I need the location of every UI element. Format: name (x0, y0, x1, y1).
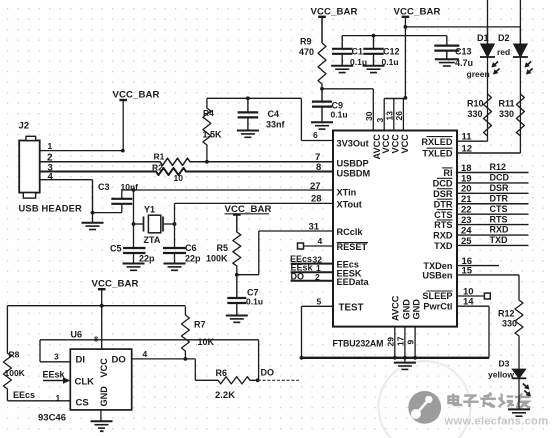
svg-text:VCC: VCC (381, 134, 391, 154)
svg-text:DTR: DTR (490, 193, 509, 203)
svg-text:13: 13 (385, 111, 395, 121)
svg-text:4: 4 (48, 172, 54, 183)
svg-text:470: 470 (299, 47, 314, 57)
svg-text:ZTA: ZTA (144, 235, 161, 245)
svg-text:8: 8 (94, 335, 98, 344)
svg-text:4: 4 (143, 349, 148, 359)
svg-text:TEST: TEST (339, 303, 364, 314)
svg-text:USBen: USBen (422, 271, 453, 281)
svg-text:PwrCtl: PwrCtl (423, 301, 452, 311)
svg-text:DTR: DTR (434, 199, 453, 209)
svg-text:4.7u: 4.7u (455, 58, 473, 68)
svg-text:USBDM: USBDM (337, 168, 371, 178)
svg-text:22: 22 (461, 205, 472, 216)
svg-text:RXD: RXD (433, 231, 453, 241)
svg-text:22p: 22p (185, 254, 201, 264)
svg-text:R6: R6 (216, 368, 228, 378)
svg-text:0.1u: 0.1u (246, 297, 263, 307)
svg-text:3V3Out: 3V3Out (337, 139, 369, 149)
svg-text:3: 3 (375, 118, 385, 123)
svg-text:1: 1 (56, 393, 61, 403)
svg-text:R7: R7 (194, 320, 206, 330)
svg-text:XTin: XTin (337, 187, 357, 197)
svg-text:green: green (467, 69, 490, 79)
svg-text:R5: R5 (217, 243, 229, 253)
svg-text:VCC_BAR: VCC_BAR (311, 7, 358, 18)
svg-text:DI: DI (76, 355, 86, 366)
svg-text:USB HEADER: USB HEADER (19, 204, 83, 214)
svg-text:12: 12 (462, 143, 473, 154)
svg-text:VCC: VCC (99, 358, 109, 378)
svg-text:CLK: CLK (75, 377, 95, 388)
svg-text:EEcs: EEcs (13, 390, 35, 400)
svg-text:14: 14 (463, 297, 474, 308)
svg-text:31: 31 (309, 222, 320, 233)
svg-text:RTS: RTS (490, 214, 508, 224)
svg-text:C5: C5 (110, 244, 122, 254)
svg-text:8: 8 (316, 162, 321, 173)
svg-text:21: 21 (461, 194, 472, 205)
svg-text:VCC_BAR: VCC_BAR (92, 279, 139, 290)
svg-text:0.1u: 0.1u (331, 110, 348, 120)
svg-text:C13: C13 (455, 47, 472, 57)
svg-text:11: 11 (462, 132, 473, 143)
svg-text:RXD: RXD (490, 225, 510, 235)
svg-text:0.1u: 0.1u (350, 57, 367, 67)
svg-text:R12: R12 (490, 162, 507, 172)
svg-text:29: 29 (385, 337, 395, 347)
svg-text:2.2K: 2.2K (215, 390, 235, 401)
svg-text:AVCC: AVCC (391, 295, 401, 321)
svg-text:330: 330 (499, 109, 514, 119)
svg-text:10K: 10K (198, 337, 215, 347)
svg-text:GND: GND (411, 299, 421, 320)
svg-text:D3: D3 (499, 359, 510, 369)
svg-text:TXD: TXD (434, 241, 453, 251)
svg-text:93C46: 93C46 (38, 413, 66, 424)
svg-text:C6: C6 (185, 243, 197, 253)
svg-text:J2: J2 (19, 121, 30, 132)
svg-text:DSR: DSR (433, 189, 453, 199)
svg-text:R1: R1 (154, 152, 165, 162)
svg-text:SLEEP: SLEEP (422, 291, 452, 301)
svg-text:VCC_BAR: VCC_BAR (394, 7, 441, 18)
svg-text:26: 26 (394, 111, 404, 121)
svg-text:28: 28 (311, 194, 322, 205)
svg-text:DCD: DCD (490, 173, 510, 183)
svg-text:D2: D2 (498, 33, 510, 43)
svg-text:C3: C3 (98, 182, 110, 192)
svg-text:C12: C12 (383, 47, 400, 57)
svg-text:27: 27 (310, 181, 321, 192)
svg-text:VCC: VCC (391, 134, 401, 154)
svg-text:15: 15 (462, 265, 473, 276)
svg-text:33nf: 33nf (266, 120, 286, 130)
svg-text:DCD: DCD (433, 179, 453, 189)
svg-text:0.1u: 0.1u (382, 57, 399, 67)
svg-text:C1: C1 (352, 47, 364, 57)
svg-text:19: 19 (461, 173, 472, 184)
svg-text:CTS: CTS (490, 204, 508, 214)
svg-text:U6: U6 (71, 330, 83, 340)
svg-text:100K: 100K (206, 254, 228, 264)
svg-text:GND: GND (99, 386, 109, 407)
svg-text:R9: R9 (300, 37, 312, 47)
svg-text:17: 17 (396, 336, 406, 346)
svg-text:RCclk: RCclk (337, 227, 364, 237)
svg-text:TXLED: TXLED (422, 148, 452, 158)
svg-text:1.5K: 1.5K (203, 130, 223, 140)
svg-text:2: 2 (315, 272, 320, 282)
svg-text:CTS: CTS (434, 210, 452, 220)
svg-text:VCC: VCC (400, 134, 410, 154)
svg-text:XTout: XTout (337, 200, 362, 210)
svg-text:3: 3 (54, 352, 59, 362)
svg-text:330: 330 (468, 109, 483, 119)
svg-text:RTS: RTS (434, 220, 452, 230)
svg-text:24: 24 (461, 225, 472, 236)
svg-text:yellow: yellow (488, 370, 514, 380)
svg-text:R8: R8 (9, 350, 20, 360)
svg-text:330: 330 (502, 319, 517, 329)
svg-text:10: 10 (174, 173, 184, 183)
svg-text:CS: CS (76, 398, 89, 409)
svg-text:EEData: EEData (337, 277, 370, 287)
svg-text:100K: 100K (5, 368, 26, 378)
svg-text:6: 6 (313, 130, 318, 140)
svg-text:R11: R11 (499, 99, 515, 109)
svg-text:D1: D1 (477, 33, 489, 43)
svg-text:EEsk: EEsk (43, 370, 66, 380)
svg-text:4: 4 (318, 236, 323, 246)
svg-text:RXLED: RXLED (421, 137, 453, 147)
svg-text:22p: 22p (139, 254, 155, 264)
svg-text:C4: C4 (268, 109, 280, 119)
svg-text:DO: DO (291, 271, 305, 281)
svg-text:FTBU232AM: FTBU232AM (333, 339, 384, 349)
svg-text:20: 20 (461, 184, 472, 195)
svg-text:RI: RI (443, 168, 452, 178)
svg-text:18: 18 (461, 163, 472, 174)
svg-text:5: 5 (317, 297, 322, 307)
svg-text:Y1: Y1 (144, 205, 155, 215)
svg-text:DO: DO (112, 355, 126, 366)
svg-text:R4: R4 (203, 108, 214, 118)
svg-text:GND: GND (402, 299, 412, 320)
svg-text:R10: R10 (467, 99, 484, 109)
svg-text:25: 25 (461, 236, 472, 247)
svg-text:USBDP: USBDP (337, 158, 369, 168)
svg-text:DSR: DSR (490, 183, 510, 193)
svg-text:1: 1 (48, 141, 53, 151)
svg-text:23: 23 (461, 215, 472, 226)
svg-text:red: red (497, 47, 510, 57)
svg-text:RESET: RESET (337, 242, 368, 252)
svg-text:DO: DO (261, 368, 275, 378)
svg-text:www.elecfans.com: www.elecfans.com (444, 416, 549, 428)
svg-text:R12: R12 (498, 309, 515, 319)
svg-text:9: 9 (406, 340, 416, 345)
svg-text:30: 30 (364, 111, 374, 121)
svg-text:R2: R2 (152, 163, 163, 173)
svg-text:TXD: TXD (490, 235, 509, 245)
